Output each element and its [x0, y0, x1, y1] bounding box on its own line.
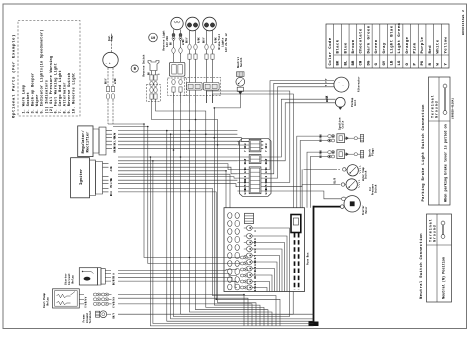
svg-text:BK/Y: BK/Y [105, 78, 108, 84]
svg-text:Color Code: Color Code [328, 37, 333, 65]
svg-text:Parking Brake Light Switch Con: Parking Brake Light Switch Connection [421, 104, 426, 202]
svg-text:Neutral Switch Connection: Neutral Switch Connection [419, 233, 424, 299]
svg-text:R/Y: R/Y [254, 255, 257, 260]
svg-text:Green: Green [374, 39, 379, 53]
svg-text:Y/W: Y/W [113, 303, 116, 308]
svg-text:1. Work Lamp: 1. Work Lamp [22, 85, 27, 114]
svg-text:Lights: Lights [220, 37, 224, 47]
svg-text:BK/Y: BK/Y [114, 146, 117, 152]
svg-text:Yellow: Yellow [443, 36, 448, 53]
svg-text:R/BL: R/BL [254, 285, 257, 291]
svg-text:LB: LB [390, 60, 394, 65]
svg-text:Dark Green: Dark Green [366, 25, 371, 53]
svg-text:R/BK: R/BK [244, 167, 247, 173]
svg-text:·: · [342, 85, 344, 88]
svg-text:9. Reverse Switch: 9. Reverse Switch [67, 73, 72, 114]
svg-text:Plugs: Plugs [370, 148, 374, 156]
svg-text:Brake/Tail: Brake/Tail [217, 33, 221, 49]
svg-text:Terminal: Terminal [88, 310, 92, 323]
svg-text:Optional Parts (For Example): Optional Parts (For Example) [12, 34, 17, 118]
svg-text:L/YB: L/YB [110, 178, 113, 184]
svg-text:12V 21/5W x2: 12V 21/5W x2 [224, 33, 228, 52]
svg-text:Black: Black [336, 39, 341, 53]
svg-text:W/BK: W/BK [254, 260, 257, 266]
svg-text:Light Green: Light Green [397, 22, 402, 53]
svg-text:Fuse Box: Fuse Box [307, 252, 310, 265]
svg-text:Pink: Pink [413, 42, 418, 53]
svg-text:BK/Y: BK/Y [113, 279, 116, 285]
svg-text:(99929-4116A): (99929-4116A) [450, 98, 454, 119]
svg-text:A/B: A/B [110, 167, 113, 172]
svg-text:·: · [338, 82, 340, 85]
svg-text:(1) Indicators: (1) Indicators [44, 80, 49, 114]
svg-text:Purple: Purple [420, 36, 425, 53]
svg-text:Light Blue: Light Blue [389, 25, 394, 53]
svg-text:Rectifier: Rectifier [85, 131, 90, 153]
svg-text:7. Cargo Bed Light: 7. Cargo Bed Light [58, 70, 63, 113]
svg-text:Coils: Coils [340, 120, 344, 128]
svg-text:Pump: Pump [110, 35, 113, 41]
svg-text:Ground: Ground [435, 100, 440, 118]
svg-text:Red: Red [428, 45, 433, 54]
svg-text:8. Alternator: 8. Alternator [62, 82, 67, 113]
svg-text:Relay: Relay [46, 297, 50, 306]
svg-text:B/W: B/W [113, 299, 116, 304]
svg-text:Switch: Switch [239, 57, 243, 67]
svg-text:PU: PU [421, 60, 425, 65]
svg-text:BK/Y: BK/Y [265, 158, 268, 164]
svg-text:Chocolate: Chocolate [359, 28, 364, 53]
svg-text:LG: LG [398, 60, 402, 65]
svg-text:BL: BL [344, 60, 348, 65]
svg-text:BR: BR [352, 60, 356, 65]
svg-text:L/YB: L/YB [114, 136, 117, 142]
svg-text:5. Indicator Lights(in Speedom: 5. Indicator Lights(in Speedometer) [40, 29, 45, 113]
svg-text:BK/R: BK/R [320, 136, 323, 142]
svg-text:10: 10 [151, 37, 156, 41]
svg-text:B/W: B/W [85, 298, 88, 303]
svg-text:BK/Y: BK/Y [203, 37, 206, 43]
svg-text:CH: CH [360, 60, 364, 65]
svg-text:BL/R: BL/R [334, 177, 337, 183]
svg-text:Orange: Orange [405, 36, 410, 53]
svg-text:GY: GY [383, 60, 387, 65]
svg-text:WD96121AWL 2: WD96121AWL 2 [462, 10, 465, 35]
svg-text:R/BK: R/BK [265, 167, 268, 173]
svg-text:R/BK: R/BK [198, 37, 201, 43]
svg-text:Brown: Brown [351, 39, 356, 53]
svg-text:6. Fuel Warning Light: 6. Fuel Warning Light [53, 63, 58, 114]
svg-text:BK/Y: BK/Y [113, 312, 116, 318]
svg-text:Relay: Relay [71, 275, 75, 284]
svg-text:R/BK: R/BK [254, 240, 257, 246]
svg-text:BK/Y: BK/Y [244, 158, 247, 164]
svg-text:12V 23W: 12V 23W [166, 36, 169, 47]
svg-text:2. Socket: 2. Socket [26, 92, 31, 114]
svg-text:Y/W: Y/W [85, 303, 88, 308]
svg-text:Switch: Switch [374, 184, 377, 193]
svg-text:3. Back-up Beeper: 3. Back-up Beeper [31, 73, 36, 114]
svg-text:BK: BK [337, 60, 341, 65]
svg-text:Reverse Switch: Reverse Switch [142, 54, 146, 76]
svg-text:BK/R: BK/R [254, 266, 257, 272]
svg-text:Coil: Coil [353, 99, 357, 106]
svg-text:W/BK: W/BK [114, 78, 117, 84]
svg-text:- +: - + [105, 62, 111, 65]
svg-text:Switch: Switch [365, 170, 368, 179]
svg-text:Regulator/: Regulator/ [81, 129, 86, 153]
svg-text:White: White [436, 39, 441, 53]
svg-text:(2) Oil Pressure Warning: (2) Oil Pressure Warning [49, 56, 54, 114]
svg-text:Ground: Ground [433, 224, 438, 242]
svg-text:Igniter: Igniter [79, 168, 84, 185]
svg-text:R/G: R/G [254, 281, 257, 286]
svg-text:Gray: Gray [382, 42, 387, 53]
svg-text:DG: DG [367, 60, 371, 65]
svg-text:R/W: R/W [254, 248, 257, 253]
svg-text:BK/W: BK/W [326, 96, 329, 102]
svg-text:Terminal: Terminal [430, 95, 435, 118]
svg-text:BK/Y: BK/Y [254, 273, 257, 279]
svg-text:Blue: Blue [343, 42, 348, 53]
svg-text:Fuel Pump: Fuel Pump [42, 293, 46, 308]
svg-text:Motor: Motor [365, 206, 368, 214]
svg-text:BK/R: BK/R [320, 152, 323, 158]
svg-text:Terminal: Terminal [428, 219, 433, 242]
svg-text:R/BK: R/BK [215, 37, 218, 43]
svg-text:When parking brake lever is pu: When parking brake lever is pulled on [443, 124, 448, 202]
svg-text:BK/Y: BK/Y [186, 37, 189, 43]
svg-text:Alternator: Alternator [356, 76, 360, 92]
svg-text:10. Reverse Light: 10. Reverse Light [72, 73, 77, 114]
svg-text:W/BK: W/BK [265, 188, 268, 194]
svg-text:W/BK: W/BK [244, 188, 247, 194]
svg-text:4. Wiper: 4. Wiper [35, 94, 40, 113]
svg-text:Circuit: Circuit [67, 273, 71, 285]
svg-text:Neutral (N) Position: Neutral (N) Position [441, 257, 446, 299]
